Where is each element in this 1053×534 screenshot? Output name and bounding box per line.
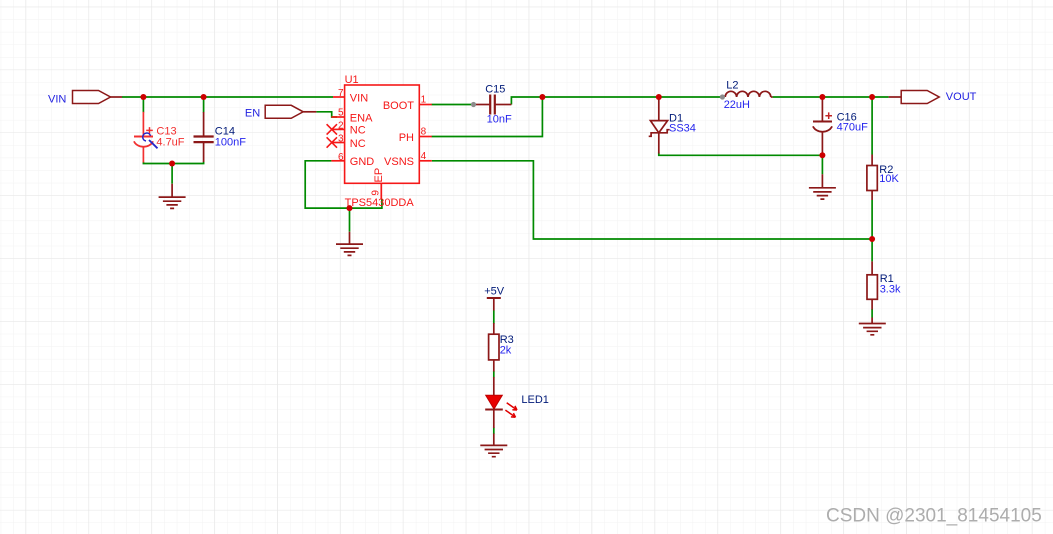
- svg-text:5: 5: [338, 108, 344, 119]
- svg-text:L2: L2: [726, 79, 738, 91]
- wire to VOUT port: [872, 96, 889, 98]
- wire C16 gnd stem: [821, 155, 823, 174]
- pin 9 EP: [371, 168, 385, 200]
- wire D1 to L2: [659, 96, 723, 98]
- pin 1 BOOT: [383, 95, 432, 112]
- resistor R2 10K: [867, 155, 900, 201]
- svg-text:GND: GND: [350, 156, 375, 168]
- svg-text:VIN: VIN: [48, 94, 66, 106]
- svg-text:U1: U1: [345, 74, 359, 86]
- op-amp U1 TPS5430DDA body: [345, 74, 420, 209]
- resistor R1 3.3k: [867, 261, 901, 309]
- svg-text:10K: 10K: [879, 173, 899, 185]
- ground (under C16): [809, 174, 836, 199]
- svg-text:3: 3: [338, 134, 344, 145]
- wire VSNS feedback: [432, 161, 872, 239]
- wire L2 to C16: [773, 96, 823, 98]
- junction VIN/C14: [201, 94, 207, 100]
- svg-text:1: 1: [421, 95, 427, 106]
- junction C16 top: [819, 94, 825, 100]
- svg-text:3.3k: 3.3k: [880, 284, 901, 296]
- svg-text:VOUT: VOUT: [946, 91, 977, 103]
- svg-text:TPS5430DDA: TPS5430DDA: [345, 197, 415, 209]
- svg-text:EN: EN: [245, 107, 260, 119]
- svg-text:9: 9: [371, 190, 382, 196]
- port VOUT: [889, 91, 977, 104]
- svg-text:ENA: ENA: [350, 112, 373, 124]
- ground (under LED1): [480, 434, 507, 457]
- wire PH horizontal: [432, 97, 543, 137]
- svg-text:4.7uF: 4.7uF: [156, 137, 184, 149]
- svg-text:EP: EP: [373, 168, 385, 183]
- junction C16 bottom: [819, 152, 825, 158]
- wire +5V to R3: [493, 310, 495, 324]
- svg-text:100nF: 100nF: [215, 137, 246, 149]
- pin 7 VIN: [333, 88, 368, 105]
- svg-text:NC: NC: [350, 138, 366, 150]
- node BOOT gray dot: [471, 102, 476, 107]
- wire C16 to R2 node: [822, 96, 872, 98]
- svg-text:BOOT: BOOT: [383, 100, 414, 112]
- wire gnd stem caps: [171, 164, 173, 184]
- diode D1 SS34 (schottky): [649, 97, 696, 154]
- ground (under U1): [336, 232, 363, 256]
- pin 2 NC: [327, 120, 366, 136]
- pin 5 ENA: [331, 108, 373, 125]
- wire LED1 to gnd: [493, 427, 495, 434]
- capacitor C14: [194, 112, 247, 162]
- svg-text:22uH: 22uH: [724, 99, 750, 111]
- wire VIN rail: [122, 96, 333, 98]
- port EN: [245, 105, 317, 119]
- ground (under R1): [859, 318, 886, 335]
- svg-text:SS34: SS34: [669, 122, 696, 134]
- svg-text:+5V: +5V: [484, 286, 505, 298]
- junction C15/PH: [539, 94, 545, 100]
- junction feedback/R1: [869, 236, 875, 242]
- wire rail PH to D1: [542, 96, 658, 98]
- wire R3 to LED1: [493, 371, 495, 378]
- wire EN: [316, 112, 337, 117]
- wire R2 bottom: [871, 200, 873, 239]
- svg-text:C15: C15: [485, 83, 505, 95]
- pin 3 NC: [327, 134, 366, 150]
- svg-text:VSNS: VSNS: [384, 156, 414, 168]
- port VIN: [48, 91, 122, 106]
- resistor R3 2k: [489, 323, 514, 372]
- svg-text:PH: PH: [399, 132, 414, 144]
- wire GND pin to EP: [305, 161, 382, 208]
- svg-text:C13: C13: [156, 125, 176, 137]
- svg-text:470uF: 470uF: [837, 122, 868, 134]
- junction caps gnd: [169, 161, 175, 167]
- svg-text:10nF: 10nF: [487, 114, 512, 126]
- ground (under C13/C14): [159, 184, 186, 209]
- wire C13 top drop: [142, 97, 144, 113]
- svg-text:8: 8: [421, 127, 427, 138]
- inductor L2 22uH: [724, 79, 773, 111]
- pin 4 VSNS: [384, 151, 432, 168]
- junction U1 gnd: [347, 205, 353, 211]
- svg-text:NC: NC: [350, 125, 366, 137]
- svg-text:LED1: LED1: [521, 394, 549, 406]
- pin 8 PH: [399, 127, 432, 144]
- wire gnd stem U1: [349, 208, 351, 232]
- svg-text:VIN: VIN: [350, 92, 368, 104]
- junction VIN/C13: [140, 94, 146, 100]
- junction VOUT/R2: [869, 94, 875, 100]
- wire C14 top drop: [203, 97, 205, 113]
- capacitor C16 (polarized): [813, 97, 868, 155]
- svg-text:2k: 2k: [500, 344, 512, 356]
- wire R1 bottom: [871, 309, 873, 318]
- wire D1 bottom to C16 bottom: [659, 153, 823, 156]
- svg-text:4: 4: [421, 151, 427, 162]
- junction D1: [656, 94, 662, 100]
- node L2 gray dot: [720, 94, 725, 99]
- wire C15 to rail: [511, 97, 542, 105]
- LED LED1: [485, 377, 549, 428]
- wire BOOT to C15: [432, 104, 472, 106]
- power +5V: [484, 286, 505, 311]
- svg-text:2: 2: [338, 120, 344, 131]
- svg-text:6: 6: [338, 152, 344, 163]
- wire R2 top: [871, 97, 873, 155]
- svg-text:CSDN @2301_81454105: CSDN @2301_81454105: [826, 506, 1042, 527]
- pin 6 GND: [331, 152, 374, 168]
- wire R1 top: [871, 239, 873, 261]
- svg-text:7: 7: [338, 88, 344, 99]
- svg-text:C14: C14: [215, 125, 235, 137]
- wire caps bottom: [143, 162, 203, 164]
- capacitor C13 (selected, polarized): [134, 112, 185, 163]
- capacitor C15: [476, 83, 512, 125]
